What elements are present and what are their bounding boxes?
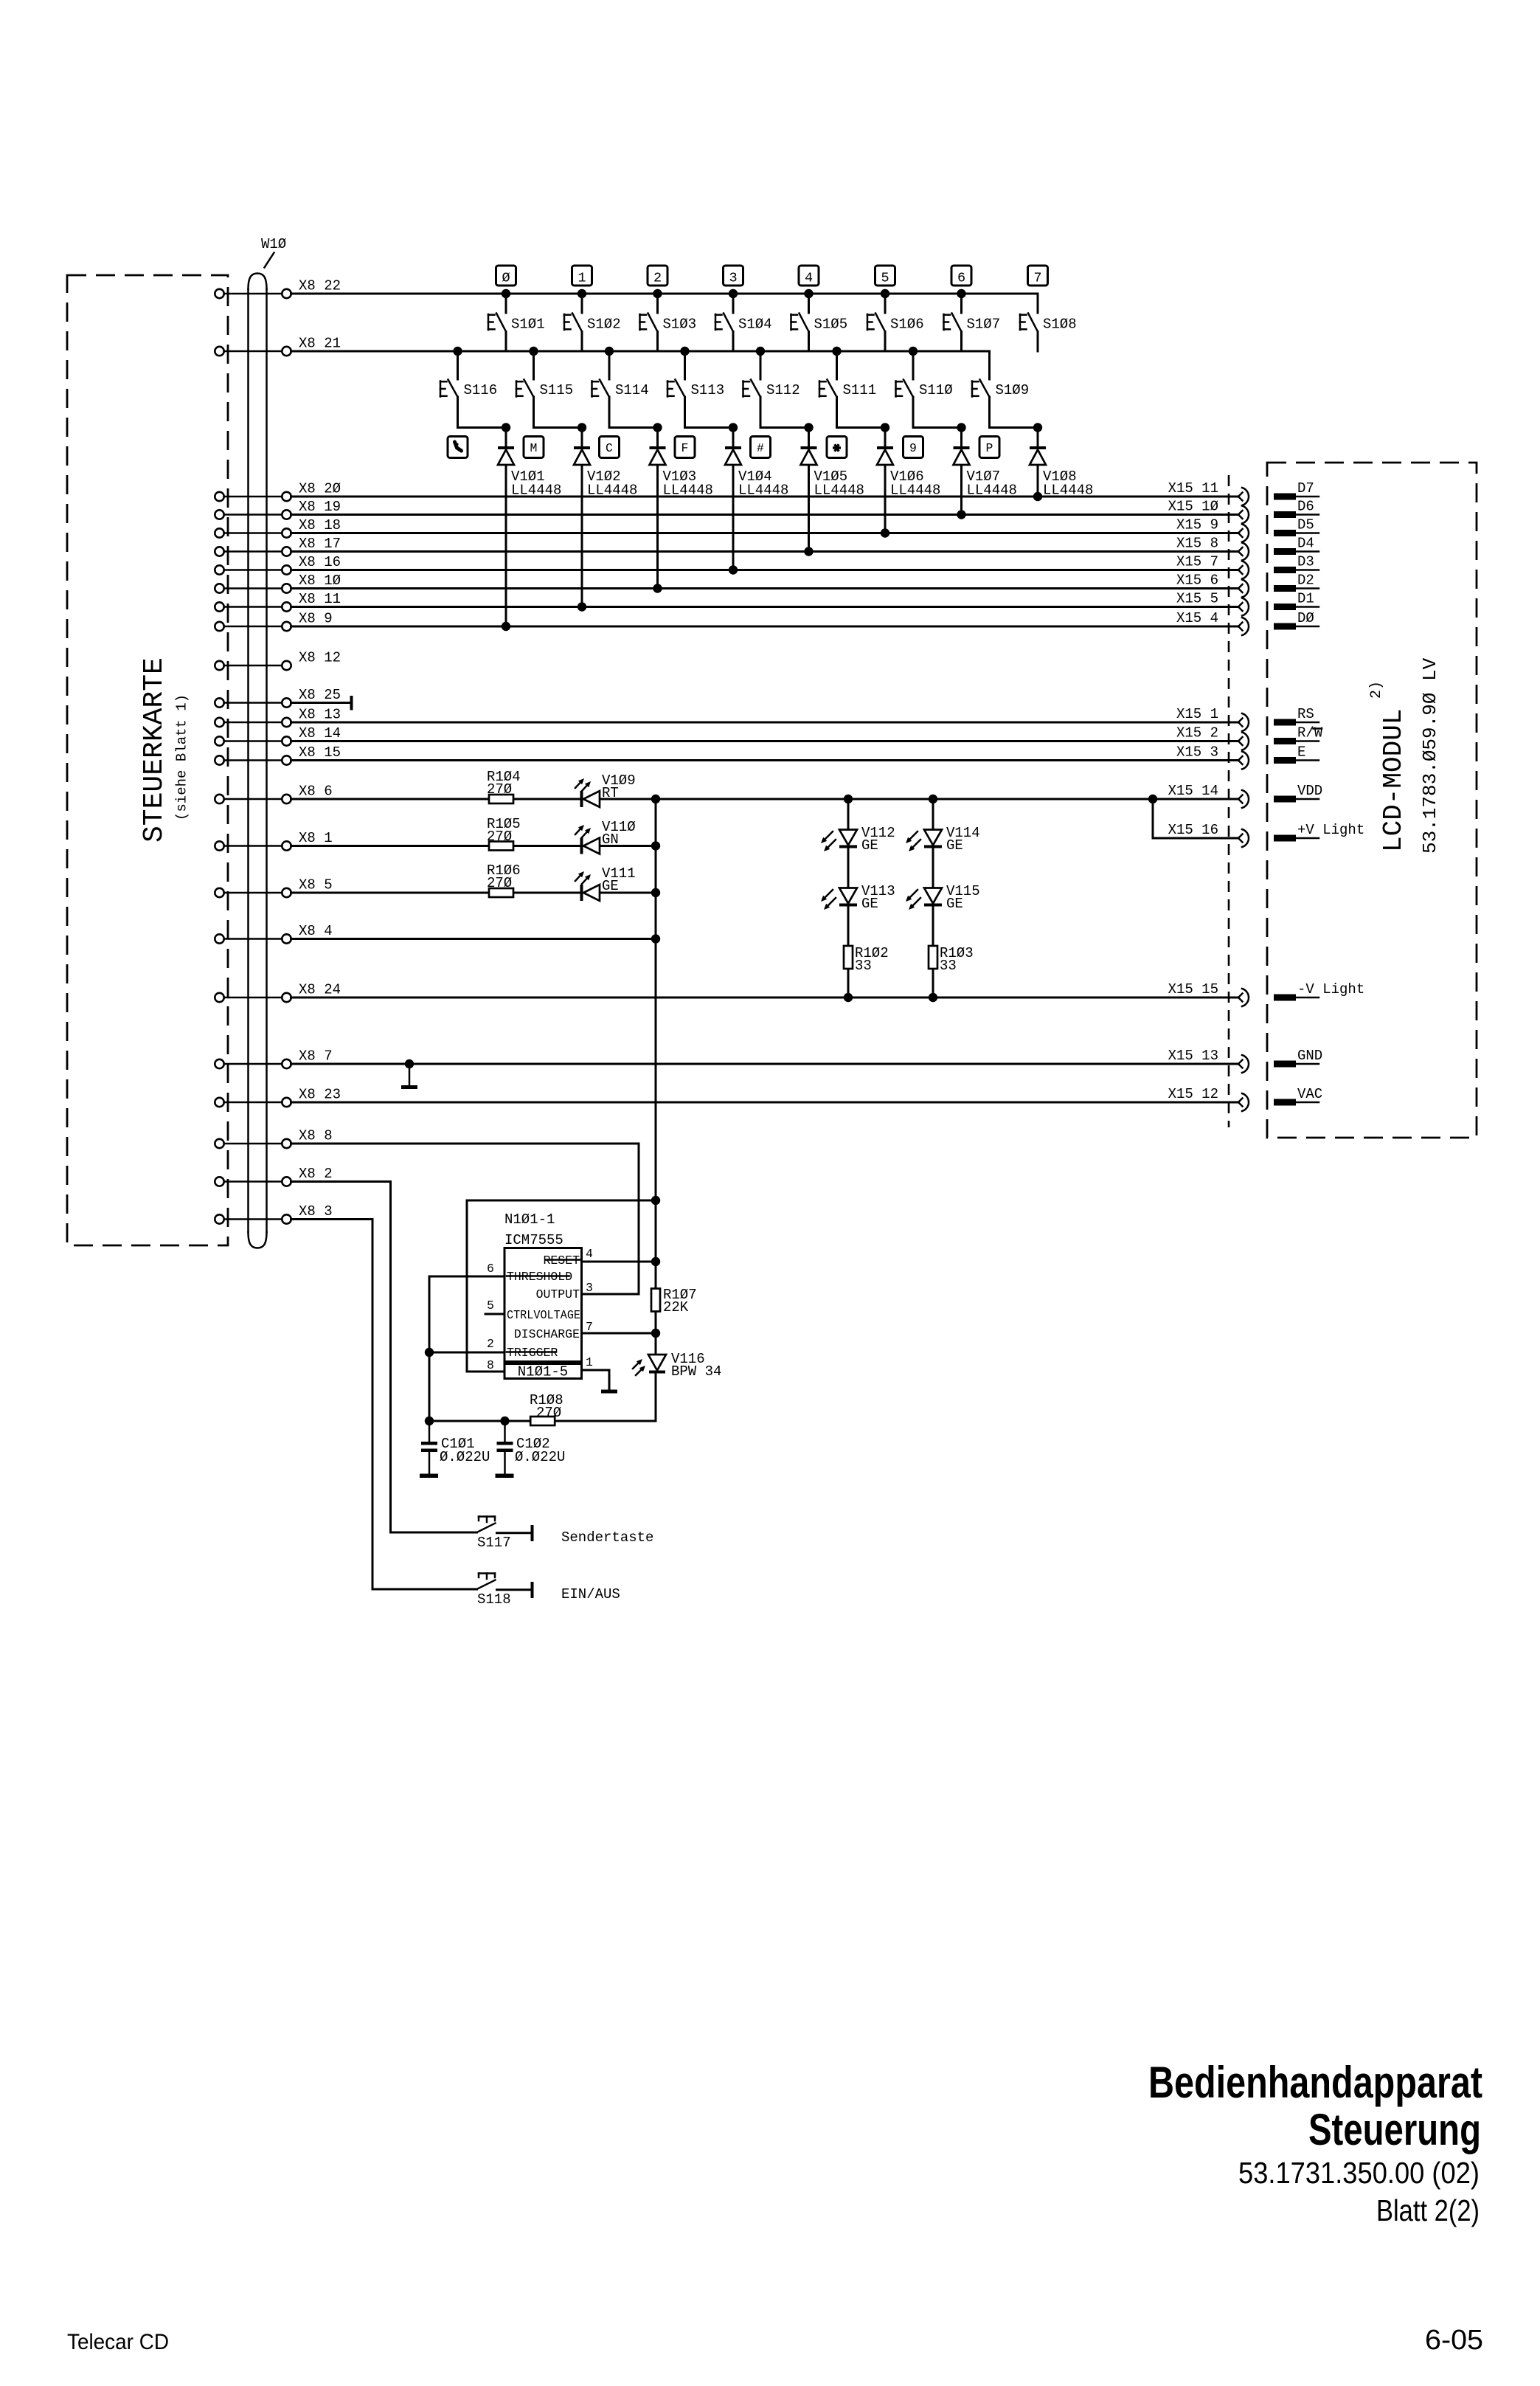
svg-text:X15 2: X15 2 — [1176, 725, 1218, 741]
label X8 18 — [299, 517, 341, 533]
wire X8 2 to S117 — [291, 1182, 477, 1533]
svg-text:GN: GN — [602, 831, 619, 848]
svg-text:X8 1Ø: X8 1Ø — [299, 573, 341, 589]
LED V115 GE — [906, 883, 980, 912]
junction R103 bottom — [929, 993, 937, 1002]
label X8 6 — [299, 784, 333, 800]
IC pin label TRIGGER — [507, 1346, 558, 1360]
svg-text:27Ø: 27Ø — [487, 829, 512, 845]
label X8 10 — [299, 573, 341, 589]
wire row X8 24 to X15 — [291, 997, 1239, 999]
terminals X8 9 — [215, 622, 291, 631]
junction column 4 bottom of switches — [804, 423, 813, 432]
svg-text:X8 5: X8 5 — [299, 877, 333, 893]
svg-text:27Ø: 27Ø — [487, 875, 512, 891]
pin number 8 — [487, 1358, 494, 1372]
svg-text:3: 3 — [729, 271, 737, 286]
svg-text:S1Ø3: S1Ø3 — [663, 317, 697, 333]
LCD pin D5 — [1274, 517, 1319, 537]
junction X8 21 switch col 6 — [909, 347, 918, 356]
switch S117 — [477, 1517, 534, 1552]
junction X8 21 switch col 1 — [529, 347, 538, 356]
svg-text:9: 9 — [909, 441, 917, 455]
key cap 4 — [799, 266, 819, 286]
svg-text:D1: D1 — [1297, 591, 1314, 607]
svg-text:D2: D2 — [1297, 573, 1314, 589]
svg-text:X15 3: X15 3 — [1176, 744, 1218, 761]
svg-text:1: 1 — [586, 1355, 593, 1369]
svg-text:Ø: Ø — [502, 271, 510, 286]
junction X8 22 col 6 — [957, 289, 965, 298]
IC N101-5 box — [504, 1364, 582, 1380]
junction column 2 bottom of switches — [653, 423, 662, 432]
connector arc X15 2 — [1238, 733, 1249, 750]
svg-text:VDD: VDD — [1297, 783, 1322, 799]
junction V112 top — [844, 795, 853, 803]
svg-text:2: 2 — [487, 1337, 494, 1351]
LCD pin VAC — [1274, 1086, 1322, 1106]
label X8 9 — [299, 611, 333, 627]
wire row X8 20 to X15 — [291, 496, 1239, 498]
label X8 14 — [299, 725, 341, 741]
junction pin 7 — [651, 1329, 660, 1338]
svg-text:S113: S113 — [691, 382, 725, 398]
LED V111 GE — [575, 865, 636, 901]
wire X8 8 to OUTPUT — [291, 1144, 639, 1294]
wire row X8 14 to X15 — [291, 740, 1239, 742]
switch S102 — [564, 294, 621, 351]
key cap 1 — [572, 266, 592, 286]
junction X8 21 switch col 4 — [756, 347, 765, 356]
svg-text:N1Ø1-1: N1Ø1-1 — [504, 1211, 555, 1228]
label X15 7 — [1176, 554, 1218, 570]
LCD pin +V Light — [1274, 822, 1364, 842]
diode V102 LL4448 — [574, 446, 637, 499]
connector arc X15 1 — [1238, 713, 1249, 731]
terminals X8 21 — [215, 347, 291, 356]
diode V103 LL4448 — [650, 446, 713, 499]
pin number 2 — [487, 1337, 494, 1351]
pin number 7 — [586, 1320, 593, 1334]
LCD pin D2 — [1274, 573, 1319, 592]
wire row X8 21 — [291, 350, 990, 353]
resistor R107 22K — [651, 1287, 697, 1315]
LED V110 GN — [575, 819, 636, 854]
wire row X8 9 to X15 — [291, 626, 1239, 628]
label EIN/AUS — [561, 1586, 620, 1602]
footer Telecar CD — [67, 2330, 169, 2354]
label X8 5 — [299, 877, 333, 893]
wire RESET pin 4 — [582, 1261, 656, 1263]
label X8 22 — [299, 278, 341, 294]
svg-text:R/W: R/W — [1297, 725, 1323, 741]
svg-text:DØ: DØ — [1297, 610, 1314, 626]
svg-text:Ø.Ø22U: Ø.Ø22U — [440, 1449, 490, 1465]
switch S115 — [516, 351, 582, 428]
svg-text:D5: D5 — [1297, 517, 1314, 533]
svg-text:CTRLVOLTAGE: CTRLVOLTAGE — [507, 1308, 580, 1322]
diode V107 LL4448 — [954, 446, 1017, 499]
svg-text:Telecar CD: Telecar CD — [67, 2330, 169, 2354]
wire row X8 15 to X15 — [291, 759, 1239, 761]
svg-text:X8 9: X8 9 — [299, 611, 333, 627]
label STEUERKARTE — [139, 657, 170, 843]
wire column 3 switch bottom to diode and row X8 16 — [732, 428, 735, 570]
LCD pin R/W — [1274, 725, 1323, 745]
connector arc X15 3 — [1238, 752, 1249, 770]
svg-text:4: 4 — [805, 271, 813, 286]
LCD pin D6 — [1274, 499, 1319, 519]
label LCD-MODUL — [1378, 709, 1409, 852]
svg-text:-V Light: -V Light — [1297, 981, 1364, 997]
connector arc X15 7 — [1238, 561, 1249, 579]
LCD pin -V Light — [1274, 981, 1364, 1001]
svg-text:2): 2) — [1368, 681, 1385, 699]
label X8 20 — [299, 481, 341, 497]
terminals X8 24 — [215, 993, 291, 1002]
svg-text:Bedienhandapparat: Bedienhandapparat — [1148, 2058, 1482, 2107]
wire column 4 switch bottom to diode and row X8 17 — [808, 428, 810, 552]
key cap 0 — [496, 266, 516, 286]
junction X15 14 branch — [1148, 795, 1157, 803]
terminals X8 13 — [215, 718, 291, 727]
svg-text:27Ø: 27Ø — [536, 1405, 561, 1421]
svg-text:Blatt 2(2): Blatt 2(2) — [1376, 2193, 1480, 2227]
connector arc X15 8 — [1238, 543, 1249, 561]
switch S106 — [867, 294, 924, 351]
LCD-Modul dashed box — [1267, 463, 1477, 1138]
svg-text:VAC: VAC — [1297, 1086, 1322, 1102]
wire THRESHOLD pin 6 — [429, 1276, 504, 1421]
svg-text:X15 12: X15 12 — [1168, 1086, 1218, 1102]
svg-text:E: E — [1297, 744, 1305, 761]
wire row X8 6 segments — [291, 798, 1239, 800]
junction X8 22 col 4 — [804, 289, 813, 298]
pin number 5 — [487, 1299, 494, 1313]
svg-text:GE: GE — [861, 837, 878, 854]
label X8 11 — [299, 591, 341, 607]
wire row X8 17 to X15 — [291, 550, 1239, 553]
diode V101 LL4448 — [498, 446, 561, 499]
junction diode column 5 at X8 18 — [881, 528, 889, 537]
svg-text:X8 3: X8 3 — [299, 1203, 333, 1220]
terminals X8 12 — [215, 661, 291, 670]
label (siehe Blatt 1) — [174, 694, 190, 820]
svg-text:7: 7 — [1033, 271, 1041, 286]
junction column 5 bottom of switches — [881, 423, 889, 432]
svg-text:X8 8: X8 8 — [299, 1128, 333, 1144]
label X15 8 — [1176, 536, 1218, 552]
wire row X8 19 to X15 — [291, 513, 1239, 516]
label X15 2 — [1176, 725, 1218, 741]
svg-text:STEUERKARTE: STEUERKARTE — [139, 657, 170, 843]
svg-text:GE: GE — [602, 878, 619, 894]
svg-text:S1Ø4: S1Ø4 — [738, 317, 772, 333]
label X8 19 — [299, 499, 341, 515]
LCD pin RS — [1274, 706, 1319, 726]
svg-text:53.1783.Ø59.9Ø LV: 53.1783.Ø59.9Ø LV — [1419, 657, 1441, 854]
svg-text:S11Ø: S11Ø — [919, 382, 953, 398]
W10 pointer line — [265, 253, 274, 268]
terminals X8 18 — [215, 528, 291, 537]
junction rail at X8 5 — [651, 888, 660, 897]
junction column 6 bottom of switches — [957, 423, 965, 432]
junction R102 bottom — [844, 993, 853, 1002]
diode V104 LL4448 — [725, 446, 788, 499]
svg-text:X8 24: X8 24 — [299, 982, 341, 998]
wire row X8 18 to X15 — [291, 532, 1239, 534]
wire CTRLVOLTAGE pin 5 stub — [485, 1313, 504, 1315]
svg-text:RS: RS — [1297, 706, 1314, 722]
svg-text:33: 33 — [940, 958, 957, 974]
terminals X8 15 — [215, 755, 291, 764]
svg-text:S115: S115 — [540, 382, 574, 398]
label X15 16 — [1168, 822, 1218, 838]
ground pin 1 — [601, 1390, 617, 1394]
wire row X8 5 segments — [291, 892, 656, 894]
title Bedienhandapparat — [1148, 2058, 1482, 2107]
connector arc X15 9 — [1238, 525, 1249, 542]
svg-text:GE: GE — [861, 896, 878, 912]
svg-text:5: 5 — [881, 271, 889, 286]
svg-text:P: P — [986, 441, 993, 455]
svg-text:W1Ø: W1Ø — [261, 236, 286, 252]
IC pin label OUTPUT — [536, 1287, 580, 1301]
terminals X8 19 — [215, 510, 291, 519]
junction column 3 bottom of switches — [729, 423, 738, 432]
wire branch to X15 16 — [1153, 799, 1238, 838]
diode V105 LL4448 — [801, 446, 864, 499]
svg-text:RT: RT — [602, 785, 619, 801]
svg-text:EIN/AUS: EIN/AUS — [561, 1586, 620, 1602]
wire X8 3 to S118 — [291, 1220, 477, 1590]
wire TRIGGER pin 2 — [429, 1352, 504, 1354]
capacitor C101 0.022U — [420, 1421, 490, 1478]
connector arc X15 5 — [1238, 598, 1249, 616]
label N101-1 ICM7555 — [504, 1211, 563, 1248]
wire row X8 1 segments — [291, 845, 656, 847]
svg-text:2: 2 — [653, 271, 662, 286]
svg-text:X15 5: X15 5 — [1176, 591, 1218, 607]
junction diode column 6 at X8 19 — [957, 510, 965, 519]
connector arc X15 10 — [1238, 506, 1249, 524]
junction column 7 bottom of switches — [1033, 423, 1042, 432]
IC pin label THRESHOLD — [507, 1270, 572, 1284]
junction X8 21 switch col 3 — [680, 347, 689, 356]
resistor R102 33 — [844, 945, 889, 974]
key cap 3 — [724, 266, 743, 286]
junction diode column 7 at X8 20 — [1033, 492, 1042, 501]
photodiode V116 BPW 34 — [633, 1351, 721, 1380]
junction diode column 1 at X8 11 — [577, 602, 586, 611]
switch S104 — [715, 294, 772, 351]
connector arc X15 11 — [1238, 488, 1249, 505]
svg-text:X8 17: X8 17 — [299, 536, 341, 552]
terminals X8 11 — [215, 602, 291, 611]
key symbol box 9 — [903, 437, 923, 458]
junction diode column 4 at X8 17 — [804, 547, 813, 556]
svg-text:GE: GE — [946, 837, 963, 854]
label X15 4 — [1176, 610, 1218, 626]
LCD pin E — [1274, 744, 1319, 764]
wire column 5 switch bottom to diode and row X8 18 — [884, 428, 887, 533]
switch S109 — [972, 351, 1038, 428]
junction C102 — [500, 1417, 509, 1425]
connector arc X15 6 — [1238, 580, 1249, 598]
junction diode column 0 at X8 9 — [502, 622, 510, 631]
cable dashed line X15 — [1228, 475, 1230, 1127]
wire row X8 13 to X15 — [291, 722, 1239, 724]
svg-text:X15 15: X15 15 — [1168, 981, 1218, 997]
label X15 1 — [1176, 706, 1218, 722]
label X15 5 — [1176, 591, 1218, 607]
svg-text:DISCHARGE: DISCHARGE — [514, 1327, 580, 1341]
wire row X8 4 — [291, 938, 656, 940]
svg-text:X8 22: X8 22 — [299, 278, 341, 294]
junction V114 top — [929, 795, 937, 803]
connector arc X15 16 — [1238, 829, 1249, 847]
title Steuerung — [1308, 2105, 1481, 2154]
wire column 0 switch bottom to diode and row X8 9 — [505, 428, 507, 627]
label X8 24 — [299, 982, 341, 998]
svg-text:S111: S111 — [843, 382, 877, 398]
terminals X8 17 — [215, 547, 291, 556]
svg-text:LCD-MODUL: LCD-MODUL — [1378, 709, 1409, 852]
terminals X8 25 — [215, 698, 291, 707]
svg-text:OUTPUT: OUTPUT — [536, 1287, 580, 1301]
svg-text:+V Light: +V Light — [1297, 822, 1364, 838]
junction diode column 2 at X8 10 — [653, 584, 662, 592]
svg-text:4: 4 — [586, 1247, 593, 1261]
LCD pin D0 — [1274, 610, 1319, 630]
label X15 11 — [1168, 480, 1218, 497]
svg-text:8: 8 — [487, 1358, 494, 1372]
svg-text:53.1731.350.00 (02): 53.1731.350.00 (02) — [1238, 2156, 1480, 2190]
switch S112 — [743, 351, 809, 428]
label X15 13 — [1168, 1048, 1218, 1064]
switch S105 — [791, 294, 848, 351]
connector arc X15 4 — [1238, 618, 1249, 635]
key symbol box M — [524, 437, 544, 458]
wire X8 25 stub — [291, 702, 352, 704]
junction X8 22 col 5 — [881, 289, 889, 298]
svg-text:X15 1Ø: X15 1Ø — [1168, 499, 1218, 515]
svg-text:S1Ø8: S1Ø8 — [1043, 317, 1077, 333]
wire row X8 10 to X15 — [291, 587, 1239, 589]
key symbol box PHONE — [448, 437, 468, 458]
LED V112 GE — [821, 825, 895, 854]
svg-text:X8 4: X8 4 — [299, 923, 333, 939]
svg-text:GE: GE — [946, 896, 963, 912]
svg-text:GND: GND — [1297, 1048, 1322, 1064]
wire row X8 23 to X15 — [291, 1102, 1239, 1104]
wire V-rail through R107 V116 — [555, 1200, 656, 1421]
svg-text:BPW 34: BPW 34 — [671, 1363, 721, 1380]
svg-text:X15 13: X15 13 — [1168, 1048, 1218, 1064]
wire pin 1 to ground — [582, 1370, 610, 1390]
LED V113 GE — [821, 883, 895, 912]
wire column 7 switch bottom to diode and row X8 20 — [1037, 428, 1039, 497]
diode V108 LL4448 — [1030, 446, 1093, 499]
svg-text:X15 16: X15 16 — [1168, 822, 1218, 838]
LCD pin D3 — [1274, 554, 1319, 574]
svg-text:5: 5 — [487, 1299, 494, 1313]
switch S103 — [640, 294, 697, 351]
terminator X8 25 — [350, 696, 353, 710]
switch S118 — [477, 1574, 534, 1608]
resistor R106 270 — [487, 862, 521, 897]
svg-text:X15 11: X15 11 — [1168, 480, 1218, 497]
svg-text:X8 16: X8 16 — [299, 554, 341, 570]
key symbol box C — [600, 437, 620, 458]
LCD pin GND — [1274, 1048, 1322, 1068]
junction X8 22 col 0 — [502, 289, 510, 298]
label Sendertaste — [561, 1529, 653, 1546]
svg-text:X15 4: X15 4 — [1176, 610, 1218, 626]
switch S107 — [944, 294, 1001, 351]
wire column 6 switch bottom to diode and row X8 19 — [960, 428, 962, 515]
label X15 3 — [1176, 744, 1218, 761]
svg-text:S1Ø5: S1Ø5 — [814, 317, 848, 333]
label X15 15 — [1168, 981, 1218, 997]
svg-text:X8 6: X8 6 — [299, 784, 333, 800]
svg-text:S1Ø1: S1Ø1 — [511, 317, 545, 333]
capacitor C102 0.022U — [496, 1421, 566, 1478]
terminals X8 5 — [215, 888, 291, 897]
switch S110 — [896, 351, 962, 428]
terminals X8 4 — [215, 934, 291, 943]
label X8 4 — [299, 923, 333, 939]
terminals X8 6 — [215, 795, 291, 803]
svg-text:X15 9: X15 9 — [1176, 517, 1218, 533]
LCD pin VDD — [1274, 783, 1322, 803]
svg-text:7: 7 — [586, 1320, 593, 1334]
svg-text:Sendertaste: Sendertaste — [561, 1529, 653, 1546]
svg-text:N1Ø1-5: N1Ø1-5 — [518, 1364, 568, 1380]
wire row X8 7 to X15 — [291, 1063, 1239, 1065]
junction rail at X8 6 — [651, 795, 660, 803]
svg-text:X8 12: X8 12 — [299, 650, 341, 666]
ground X8 7 — [401, 1064, 417, 1089]
terminals X8 20 — [215, 492, 291, 501]
svg-text:#: # — [757, 441, 764, 455]
svg-text:S1Ø7: S1Ø7 — [967, 317, 1001, 333]
svg-text:D7: D7 — [1297, 480, 1314, 497]
label W10 — [261, 236, 286, 252]
key symbol box P — [979, 437, 999, 458]
junction diode column 3 at X8 16 — [729, 565, 738, 574]
wire +V rail to pin 8 — [467, 1200, 656, 1372]
svg-text:S1Ø2: S1Ø2 — [587, 317, 621, 333]
label X8 17 — [299, 536, 341, 552]
label 53.1783.059.90 LV — [1419, 657, 1441, 854]
junction pin 4 — [651, 1257, 660, 1266]
terminals X8 10 — [215, 584, 291, 592]
label X8 13 — [299, 707, 341, 723]
LCD pin D1 — [1274, 591, 1319, 611]
svg-text:D4: D4 — [1297, 536, 1314, 552]
pin number 4 — [586, 1247, 593, 1261]
svg-text:X15 7: X15 7 — [1176, 554, 1218, 570]
svg-text:X15 8: X15 8 — [1176, 536, 1218, 552]
junction trigger column — [425, 1348, 434, 1357]
key symbol box # — [751, 437, 771, 458]
wire junction column +V rail — [655, 799, 657, 1200]
key cap 5 — [875, 266, 895, 286]
label footnote 2) — [1368, 681, 1385, 699]
terminals X8 7 — [215, 1059, 291, 1068]
resistor R104 270 — [487, 769, 521, 803]
